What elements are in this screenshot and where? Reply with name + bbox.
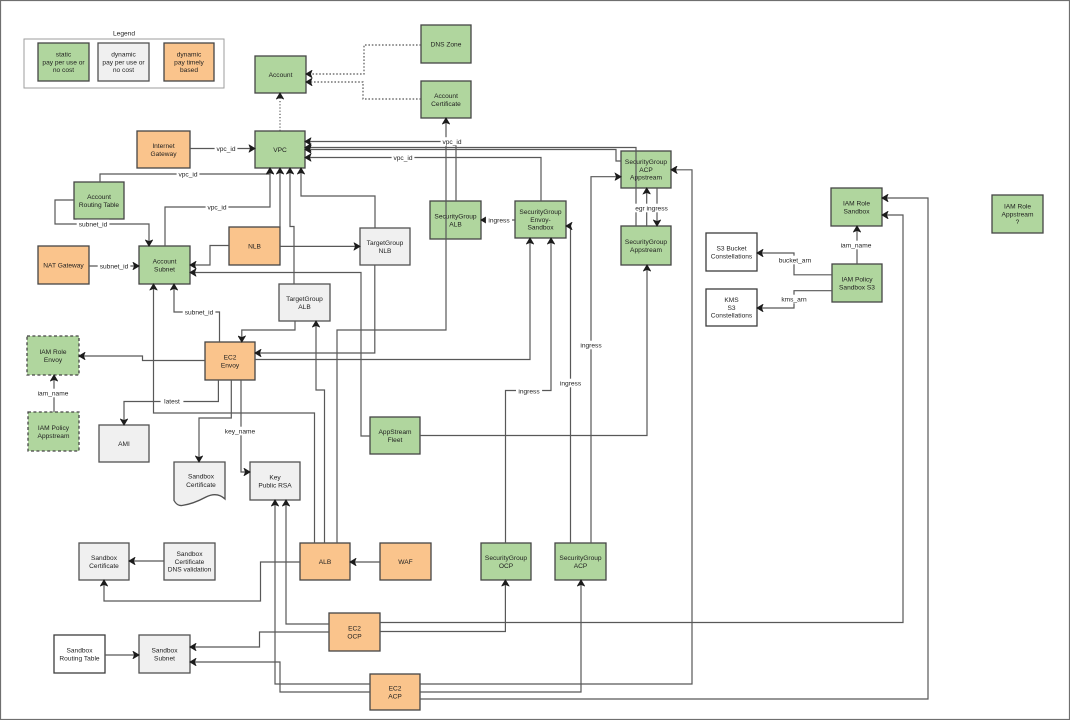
label subnet_id — [98, 262, 131, 271]
node Key Public RSA — [250, 462, 300, 500]
svg-text:pay per use or: pay per use or — [42, 59, 85, 66]
svg-text:Sandbox S3: Sandbox S3 — [839, 284, 875, 291]
svg-text:TargetGroup: TargetGroup — [367, 240, 404, 247]
node ALB — [300, 543, 350, 580]
svg-text:Routing Table: Routing Table — [59, 655, 100, 662]
node AppStream Fleet — [370, 417, 420, 454]
svg-text:NLB: NLB — [379, 248, 392, 255]
node EC2 ACP — [370, 674, 420, 710]
label ingress — [558, 379, 584, 388]
wire ALB to Sandbox Certificate — [104, 562, 300, 601]
wire EC2 OCP to SecurityGroup OCP — [380, 580, 505, 632]
svg-text:VPC: VPC — [273, 147, 287, 154]
svg-text:vpc_id: vpc_id — [393, 155, 412, 162]
svg-text:SecurityGroup: SecurityGroup — [625, 239, 667, 246]
wire EC2 Envoy to Key Public RSA (key_name) — [241, 380, 250, 472]
svg-text:bucket_arn: bucket_arn — [779, 258, 812, 265]
svg-text:Key: Key — [269, 475, 281, 482]
wire Account Routing Table to VPC (vpc_id) — [100, 168, 270, 182]
svg-text:SecurityGroup: SecurityGroup — [519, 209, 561, 216]
node NAT Gateway — [38, 246, 89, 284]
svg-text:AppStream: AppStream — [379, 429, 412, 436]
svg-text:ALB: ALB — [449, 221, 462, 228]
wire EC2 ACP to Key Public RSA — [275, 500, 370, 684]
label egr ingress — [632, 204, 671, 213]
wire NAT Gateway to Account Subnet (subnet_id) — [89, 265, 139, 267]
label vpc_id — [215, 144, 238, 153]
svg-text:dynamic: dynamic — [177, 52, 202, 59]
svg-text:IAM Role: IAM Role — [843, 201, 870, 208]
node IAM Role Sandbox — [831, 188, 882, 226]
node IAM Role Appstream ? — [992, 195, 1043, 233]
node Account Subnet — [139, 246, 190, 284]
svg-text:egr ingress: egr ingress — [635, 206, 668, 213]
node IAM Role Envoy (dashed) — [27, 336, 79, 375]
wire SecurityGroup ACP to SecurityGroup ACP Appstream (ingress) — [591, 177, 621, 543]
svg-text:dynamic: dynamic — [111, 52, 136, 59]
label kms_arn — [781, 295, 807, 304]
svg-text:IAM Role: IAM Role — [39, 349, 66, 356]
svg-text:SecurityGroup: SecurityGroup — [625, 159, 667, 166]
label key_name — [225, 427, 256, 436]
svg-text:Appstream: Appstream — [630, 175, 662, 182]
wire WAF to ALB — [350, 561, 380, 563]
svg-text:Account: Account — [269, 72, 293, 79]
wire ALB to Account Certificate — [337, 118, 446, 543]
wire NLB to TargetGroup NLB — [280, 245, 360, 247]
wire ALB to Account Subnet — [154, 284, 315, 543]
svg-text:Sandbox: Sandbox — [843, 208, 870, 215]
svg-text:ALB: ALB — [319, 559, 332, 566]
wire DNS Zone to Account (dashed) — [306, 45, 421, 74]
svg-text:Account: Account — [434, 93, 458, 100]
svg-text:S3: S3 — [727, 305, 735, 312]
svg-text:Appstream: Appstream — [38, 433, 70, 440]
wire EC2 Envoy to Sandbox Certificate document — [199, 380, 231, 462]
svg-text:Certificate: Certificate — [175, 559, 205, 566]
wire SecurityGroup ACP to SecurityGroup Envoy-Sandbox (ingress) — [566, 226, 571, 543]
svg-text:Envoy: Envoy — [221, 362, 240, 369]
svg-text:SecurityGroup: SecurityGroup — [485, 555, 527, 562]
svg-text:IAM Policy: IAM Policy — [38, 425, 70, 432]
svg-text:ingress: ingress — [518, 389, 540, 396]
svg-text:Subnet: Subnet — [154, 266, 175, 273]
wire TargetGroup ALB to EC2 Envoy — [242, 321, 295, 342]
svg-text:Internet: Internet — [152, 143, 175, 150]
svg-text:Account: Account — [153, 259, 177, 266]
svg-text:SecurityGroup: SecurityGroup — [434, 214, 476, 221]
svg-text:kms_arn: kms_arn — [781, 297, 807, 304]
svg-text:pay per use or: pay per use or — [102, 59, 145, 66]
svg-text:subnet_id: subnet_id — [185, 310, 214, 317]
wire SecurityGroup ALB to VPC (vpc_id) — [305, 142, 456, 202]
node SecurityGroup ACP — [555, 543, 606, 580]
svg-text:Constellations: Constellations — [711, 253, 753, 260]
wire EC2 Envoy to SecurityGroup Envoy-Sandbox — [255, 238, 530, 360]
svg-text:OCP: OCP — [347, 633, 362, 640]
wire NLB to VPC — [279, 168, 281, 227]
wire SecurityGroup ACP Appstream to SecurityGroup Appstream (ingress) — [656, 188, 658, 226]
wire EC2 OCP to Key Public RSA — [286, 500, 329, 624]
wire EC2 Envoy to AMI (latest) — [124, 380, 218, 425]
node EC2 OCP — [329, 613, 380, 651]
node SecurityGroup ALB — [430, 201, 481, 239]
node SecurityGroup Appstream — [621, 226, 671, 265]
wire TargetGroup ALB to VPC — [290, 168, 294, 284]
label vpc_id — [441, 137, 464, 146]
svg-text:static: static — [56, 52, 72, 59]
wire IAM Policy Sandbox S3 to S3 Bucket Constellations (bucket_arn) — [757, 253, 832, 275]
wire SecurityGroup OCP to SecurityGroup Envoy-Sandbox (ingress) — [506, 238, 552, 543]
node SecurityGroup Envoy-Sandbox — [515, 201, 566, 238]
svg-text:Constellations: Constellations — [711, 313, 753, 320]
label ingress — [486, 216, 512, 225]
wire Account Subnet to VPC (vpc_id) — [165, 168, 270, 246]
label vpc_id — [177, 170, 200, 179]
wire AppStream Fleet to SecurityGroup Appstream — [420, 265, 647, 436]
svg-text:NLB: NLB — [248, 243, 261, 250]
wire IAM Policy Sandbox S3 to KMS S3 Constellations (kms_arn) — [757, 291, 832, 308]
svg-text:no cost: no cost — [113, 67, 134, 74]
node TargetGroup NLB — [360, 228, 410, 265]
label iam_name — [841, 241, 872, 250]
svg-text:?: ? — [1016, 219, 1020, 226]
wire Sandbox Certificate DNS validation to Sandbox Certificate — [129, 560, 164, 562]
wire SecurityGroup Appstream to SecurityGroup ACP Appstream (egr) — [646, 188, 648, 226]
svg-text:subnet_id: subnet_id — [100, 264, 129, 271]
svg-text:Sandbox: Sandbox — [91, 555, 118, 562]
wire EC2 ACP to SecurityGroup ACP Appstream — [420, 170, 692, 684]
svg-text:Envoy: Envoy — [44, 357, 63, 364]
svg-text:Certificate: Certificate — [186, 482, 216, 489]
svg-text:Sandbox: Sandbox — [188, 474, 215, 481]
wire SecurityGroup ACP Appstream to VPC — [305, 150, 621, 162]
node VPC — [255, 131, 305, 168]
label bucket_arn — [777, 256, 813, 265]
svg-text:Subnet: Subnet — [154, 655, 175, 662]
node Sandbox Routing Table — [54, 635, 105, 673]
node AMI — [99, 425, 149, 462]
svg-text:key_name: key_name — [225, 429, 256, 436]
label latest — [161, 397, 184, 406]
svg-text:DNS Zone: DNS Zone — [431, 41, 462, 48]
node NLB — [229, 227, 280, 265]
node Account Routing Table — [74, 182, 124, 219]
svg-text:vpc_id: vpc_id — [216, 146, 235, 153]
svg-text:Appstream: Appstream — [630, 247, 662, 254]
svg-text:EC2: EC2 — [348, 626, 361, 633]
svg-text:EC2: EC2 — [224, 355, 237, 362]
wire SecurityGroup Appstream to VPC — [305, 148, 636, 227]
svg-text:OCP: OCP — [499, 563, 514, 570]
node SecurityGroup ACP Appstream — [621, 151, 671, 188]
svg-text:latest: latest — [164, 399, 180, 406]
svg-text:Legend: Legend — [113, 31, 135, 38]
svg-text:Sandbox: Sandbox — [151, 648, 178, 655]
legend item: dynamic pay per use or no cost — [98, 43, 149, 81]
node Sandbox Certificate (document shape) — [174, 462, 225, 506]
svg-text:subnet_id: subnet_id — [79, 222, 108, 229]
node Internet Gateway — [137, 131, 190, 168]
svg-text:Sandbox: Sandbox — [176, 551, 203, 558]
svg-text:Certificate: Certificate — [89, 563, 119, 570]
svg-text:vpc_id: vpc_id — [207, 205, 226, 212]
wire TargetGroup NLB to VPC — [301, 168, 375, 228]
svg-text:Routing Table: Routing Table — [79, 202, 120, 209]
svg-text:Envoy-: Envoy- — [530, 217, 551, 224]
svg-text:S3 Bucket: S3 Bucket — [716, 246, 746, 253]
wire EC2 ACP to Sandbox Subnet — [190, 662, 370, 692]
svg-text:vpc_id: vpc_id — [178, 172, 197, 179]
svg-text:SecurityGroup: SecurityGroup — [559, 555, 601, 562]
svg-text:Sandbox: Sandbox — [527, 225, 554, 232]
wire EC2 OCP to IAM Role Sandbox — [380, 215, 903, 623]
wire NLB to Account Subnet — [190, 246, 229, 266]
svg-text:ingress: ingress — [560, 381, 582, 388]
label ingress — [516, 387, 542, 396]
node Sandbox Certificate DNS validation — [164, 543, 215, 580]
svg-text:DNS validation: DNS validation — [168, 567, 212, 574]
svg-text:iam_name: iam_name — [38, 391, 69, 398]
svg-text:WAF: WAF — [398, 559, 412, 566]
label vpc_id — [392, 153, 415, 162]
label iam_name — [38, 389, 69, 398]
wire EC2 OCP to Sandbox Subnet — [190, 632, 329, 647]
node KMS S3 Constellations — [706, 289, 757, 326]
legend item: static pay per use or no cost — [38, 43, 89, 81]
svg-text:Public RSA: Public RSA — [258, 482, 292, 489]
node TargetGroup ALB — [279, 284, 330, 321]
svg-text:ACP: ACP — [639, 167, 653, 174]
node IAM Policy Appstream (dashed) — [28, 412, 79, 451]
svg-text:based: based — [180, 67, 198, 74]
wire ALB to TargetGroup ALB — [316, 321, 325, 543]
wire IAM Policy Appstream to IAM Role Envoy (iam_name) — [53, 375, 55, 412]
node DNS Zone — [421, 25, 471, 63]
svg-text:AMI: AMI — [118, 441, 130, 448]
svg-text:TargetGroup: TargetGroup — [286, 296, 323, 303]
svg-text:no cost: no cost — [53, 67, 74, 74]
svg-text:EC2: EC2 — [389, 686, 402, 693]
label subnet_id — [77, 220, 110, 229]
svg-text:IAM Policy: IAM Policy — [841, 277, 873, 284]
wire IAM Policy Sandbox S3 to IAM Role Sandbox (iam_name) — [856, 226, 858, 264]
svg-text:ACP: ACP — [574, 563, 588, 570]
svg-text:ALB: ALB — [298, 304, 311, 311]
wire Account Certificate to Account (dashed) — [306, 82, 421, 99]
wire Internet Gateway to VPC (vpc_id) — [190, 148, 255, 150]
svg-text:Fleet: Fleet — [388, 437, 403, 444]
wire AppStream Fleet to Account Subnet — [190, 273, 370, 437]
svg-text:pay timely: pay timely — [174, 59, 204, 66]
node Sandbox Certificate — [79, 543, 129, 580]
wire EC2 Envoy to IAM Role Envoy — [79, 356, 205, 361]
wire VPC to Account (dotted) — [279, 93, 281, 131]
wire SecurityGroup Envoy-Sandbox to VPC (vpc_id) — [305, 158, 541, 202]
wire EC2 ACP to IAM Role Sandbox — [420, 198, 928, 699]
node Account — [255, 56, 306, 93]
svg-text:Account: Account — [87, 194, 111, 201]
label ingress — [578, 341, 604, 350]
svg-text:ingress: ingress — [488, 218, 510, 225]
label subnet_id — [183, 308, 216, 317]
svg-text:iam_name: iam_name — [841, 243, 872, 250]
svg-text:Gateway: Gateway — [150, 151, 177, 158]
node Account Certificate — [421, 81, 471, 118]
wire SecurityGroup Envoy-Sandbox to SecurityGroup ALB (ingress) — [481, 219, 515, 221]
wire EC2 Envoy to Account Subnet (subnet_id) — [174, 284, 220, 342]
svg-text:NAT Gateway: NAT Gateway — [43, 262, 84, 269]
legend item: dynamic pay timely based — [164, 43, 214, 81]
node EC2 Envoy — [205, 342, 255, 380]
wire TargetGroup NLB to EC2 Envoy — [255, 265, 375, 353]
node SecurityGroup OCP — [481, 543, 531, 580]
svg-text:KMS: KMS — [724, 297, 739, 304]
svg-text:Sandbox: Sandbox — [66, 648, 93, 655]
svg-text:ACP: ACP — [388, 693, 402, 700]
svg-text:ingress: ingress — [580, 343, 602, 350]
svg-text:vpc_id: vpc_id — [442, 139, 461, 146]
node IAM Policy Sandbox S3 — [832, 264, 882, 302]
legend frame — [24, 39, 224, 88]
node S3 Bucket Constellations — [706, 233, 757, 271]
wire Sandbox Routing Table to Sandbox Subnet — [105, 654, 139, 656]
svg-text:Appstream: Appstream — [1002, 211, 1034, 218]
label vpc_id — [206, 203, 229, 212]
svg-text:Certificate: Certificate — [431, 101, 461, 108]
wire EC2 ACP to SecurityGroup ACP — [420, 580, 581, 692]
svg-text:IAM Role: IAM Role — [1004, 204, 1031, 211]
node Sandbox Subnet — [139, 635, 190, 673]
node WAF — [380, 543, 431, 580]
wire Account Routing Table to Account Subnet (subnet_id) — [55, 200, 149, 246]
